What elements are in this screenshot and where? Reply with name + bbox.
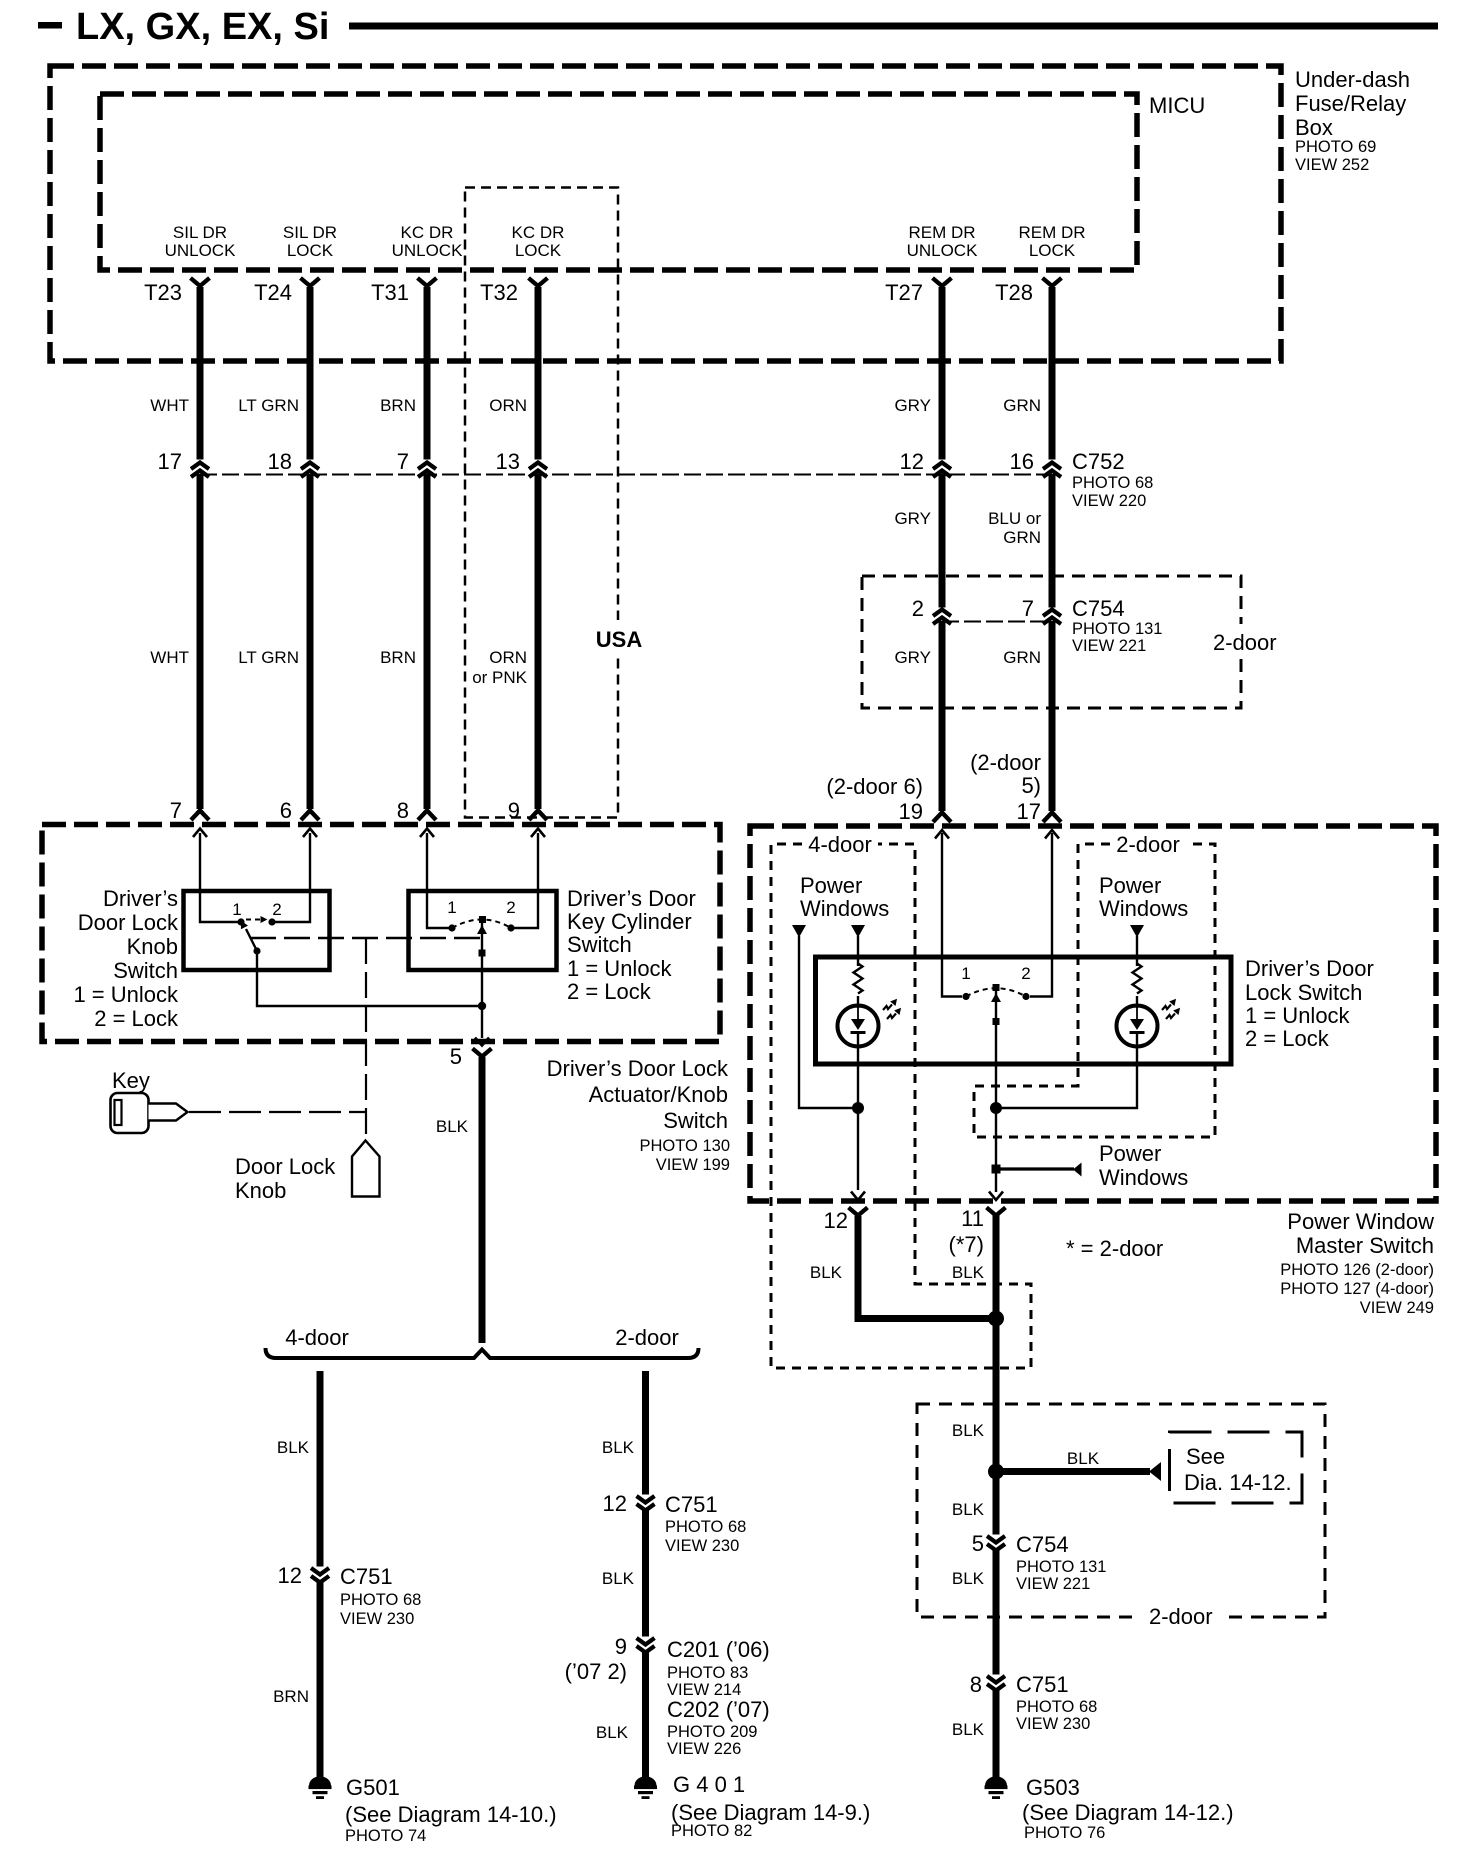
branch wire to See Dia	[996, 1468, 1150, 1475]
svg-text:LOCK: LOCK	[515, 241, 562, 260]
svg-text:ORN: ORN	[489, 648, 527, 667]
svg-text:5: 5	[972, 1531, 984, 1556]
svg-text:2 = Lock: 2 = Lock	[94, 1006, 179, 1031]
wire flare end wire3	[418, 811, 436, 821]
C752 chevrons wire6	[1043, 463, 1061, 470]
svg-text:5): 5)	[1021, 773, 1041, 798]
wire flare end wire6	[1043, 813, 1061, 823]
C752 chevrons wire2	[301, 463, 319, 470]
svg-text:Actuator/Knob: Actuator/Knob	[589, 1082, 728, 1107]
svg-text:PHOTO 130: PHOTO 130	[640, 1137, 730, 1155]
lock switch solid box	[816, 957, 1232, 1064]
wire BLK mid	[642, 1509, 649, 1637]
svg-text:16: 16	[1010, 449, 1034, 474]
svg-text:4-door: 4-door	[808, 832, 872, 857]
FUSEBOX	[50, 66, 1410, 361]
svg-text:PHOTO 68: PHOTO 68	[665, 1518, 746, 1536]
left lamp LED	[838, 1006, 879, 1047]
2-door dashed box bottom	[917, 1404, 1325, 1617]
svg-text:Windows: Windows	[1099, 1165, 1188, 1190]
wire T32 mid	[535, 474, 542, 809]
arrow up wire17	[1045, 830, 1059, 839]
svg-text:PHOTO 68: PHOTO 68	[1072, 474, 1153, 492]
svg-text:BLK: BLK	[1067, 1449, 1100, 1468]
svg-text:Switch: Switch	[567, 932, 632, 957]
svg-text:T32: T32	[480, 280, 518, 305]
svg-text:C752: C752	[1072, 449, 1125, 474]
ground G401	[634, 1776, 657, 1799]
key switch dashed arc	[452, 920, 511, 929]
branch triangle	[1149, 1462, 1161, 1481]
svg-text:BLK: BLK	[952, 1500, 985, 1519]
svg-text:PHOTO 126 (2-door): PHOTO 126 (2-door)	[1280, 1261, 1434, 1279]
svg-text:Driver’s Door Lock: Driver’s Door Lock	[547, 1056, 729, 1081]
lock common square 2	[993, 1018, 1000, 1025]
svg-text:7: 7	[170, 798, 182, 823]
MASTER	[750, 826, 1436, 1535]
svg-text:(’07 2): (’07 2)	[565, 1659, 627, 1684]
lock common wire	[995, 991, 997, 1192]
actuator knob switch dashed box	[42, 825, 720, 1042]
lock common arrow up	[991, 993, 1001, 1002]
key common square 2	[479, 950, 486, 957]
connector C201 chevrons down	[637, 1638, 655, 1645]
svg-text:(2-door 6): (2-door 6)	[826, 774, 923, 799]
svg-text:Key: Key	[112, 1068, 150, 1093]
svg-text:G503: G503	[1026, 1775, 1080, 1800]
svg-text:C754: C754	[1016, 1532, 1069, 1557]
feed arrow left lamp	[851, 925, 865, 938]
wire flare end wire1	[191, 811, 209, 821]
wire flare end wire2	[301, 811, 319, 821]
svg-text:KC DR: KC DR	[512, 223, 565, 242]
wire pin8 to key contact1	[427, 833, 449, 928]
svg-text:Windows: Windows	[1099, 896, 1188, 921]
feed arrow left bypass	[792, 925, 806, 938]
svg-text:PHOTO 82: PHOTO 82	[671, 1822, 752, 1840]
TITLE	[38, 6, 1438, 48]
wire T24 upper	[307, 287, 314, 460]
junction dot see-branch	[988, 1464, 1004, 1480]
svg-text:9: 9	[508, 798, 520, 823]
svg-text:SIL DR: SIL DR	[283, 223, 337, 242]
svg-text:LT GRN: LT GRN	[238, 648, 299, 667]
svg-text:ORN: ORN	[489, 396, 527, 415]
connector C751 chevrons down	[987, 1676, 1005, 1683]
svg-text:PHOTO 76: PHOTO 76	[1024, 1824, 1105, 1842]
key common wire	[481, 923, 483, 1038]
svg-text:PHOTO 131: PHOTO 131	[1072, 620, 1162, 638]
svg-text:LX, GX, EX, Si: LX, GX, EX, Si	[76, 6, 329, 48]
power windows tap line	[996, 1167, 1074, 1170]
left lamp wire mid	[857, 996, 859, 1008]
svg-text:BLK: BLK	[952, 1263, 985, 1282]
connector C751 chevrons down	[637, 1496, 655, 1503]
svg-text:BRN: BRN	[380, 396, 416, 415]
title rule line	[349, 23, 1438, 30]
junction dot left	[852, 1102, 864, 1114]
svg-text:C754: C754	[1072, 596, 1125, 621]
terminal Y T24	[301, 278, 320, 286]
wire T28 lower	[1049, 621, 1056, 811]
svg-text:Fuse/Relay: Fuse/Relay	[1295, 91, 1406, 116]
wire T27 c752-c754	[939, 474, 946, 608]
knob common dot	[253, 947, 260, 954]
svg-text:1 = Unlock: 1 = Unlock	[1245, 1003, 1351, 1028]
left lamp wire upper	[857, 936, 859, 966]
key head	[111, 1093, 149, 1133]
svg-text:VIEW 230: VIEW 230	[340, 1610, 414, 1628]
svg-text:BLK: BLK	[952, 1720, 985, 1739]
left resistor	[854, 964, 863, 994]
connector C751 chevrons down	[311, 1568, 329, 1575]
wire T31 mid	[424, 474, 431, 809]
svg-text:2-door: 2-door	[615, 1325, 679, 1350]
svg-text:Switch: Switch	[113, 958, 178, 983]
wire BLK 11	[993, 1213, 1000, 1535]
wire T27 lower	[939, 621, 946, 811]
svg-text:GRN: GRN	[1003, 648, 1041, 667]
C754 2-door dashed box	[862, 576, 1241, 708]
wire T23 upper	[197, 287, 204, 460]
CHAINR	[917, 1404, 1325, 1842]
wire BLK mid2	[993, 1549, 1000, 1675]
svg-text:1: 1	[232, 900, 241, 919]
svg-text:T31: T31	[371, 280, 409, 305]
junction dot thick	[988, 1311, 1004, 1327]
power windows tap triangle	[1073, 1163, 1082, 1177]
svg-text:LOCK: LOCK	[1029, 241, 1076, 260]
svg-text:C751: C751	[665, 1492, 718, 1517]
knob common wire	[257, 951, 482, 1006]
svg-text:Driver’s: Driver’s	[103, 886, 178, 911]
svg-text:1 = Unlock: 1 = Unlock	[73, 982, 179, 1007]
C752 chevrons wire1	[191, 463, 209, 470]
svg-text:Lock Switch: Lock Switch	[1245, 980, 1362, 1005]
svg-text:See: See	[1186, 1444, 1225, 1469]
svg-text:Power: Power	[1099, 1141, 1161, 1166]
svg-text:19: 19	[899, 799, 923, 824]
svg-text:VIEW 249: VIEW 249	[1360, 1299, 1434, 1317]
arrow up pin7	[193, 829, 207, 838]
svg-text:GRY: GRY	[894, 509, 931, 528]
svg-text:C751: C751	[1016, 1672, 1069, 1697]
svg-text:5: 5	[450, 1044, 462, 1069]
wire BLK lower	[993, 1691, 1000, 1779]
svg-text:BLK: BLK	[810, 1263, 843, 1282]
knob switch box	[184, 891, 330, 970]
svg-text:Door Lock: Door Lock	[235, 1154, 336, 1179]
svg-text:8: 8	[397, 798, 409, 823]
junction dot middle	[990, 1102, 1002, 1114]
svg-text:2: 2	[912, 596, 924, 621]
knob switch dashed throw	[246, 919, 261, 921]
CHAINM	[565, 1371, 871, 1840]
svg-text:VIEW 230: VIEW 230	[665, 1537, 739, 1555]
exit arrow down 11	[989, 1192, 1003, 1201]
svg-text:12: 12	[278, 1563, 302, 1588]
svg-text:VIEW 252: VIEW 252	[1295, 156, 1369, 174]
svg-text:PHOTO 131: PHOTO 131	[1016, 1558, 1106, 1576]
wire pin6 to knob contact2	[275, 833, 310, 922]
svg-text:T24: T24	[254, 280, 292, 305]
right lamp wire upper	[1136, 936, 1138, 966]
wire BRN lower	[317, 1581, 324, 1779]
lock contact 1	[962, 993, 969, 1000]
C752 chevrons wire5	[933, 463, 951, 470]
wire BLK lower	[642, 1651, 649, 1779]
svg-text:KC DR: KC DR	[401, 223, 454, 242]
svg-text:PHOTO 69: PHOTO 69	[1295, 138, 1376, 156]
svg-text:6: 6	[280, 798, 292, 823]
wire T23 mid	[197, 474, 204, 809]
svg-text:LOCK: LOCK	[287, 241, 334, 260]
connector C752 dashed line	[200, 474, 1052, 476]
ground G503	[985, 1776, 1008, 1799]
terminal Y pin11	[987, 1208, 1006, 1216]
split bracket	[266, 1348, 699, 1358]
left lamp emission	[883, 1005, 892, 1011]
terminal Y T23	[191, 278, 210, 286]
svg-text:REM DR: REM DR	[1018, 223, 1085, 242]
svg-text:Driver’s Door: Driver’s Door	[1245, 956, 1374, 981]
lock switch dashed arc	[966, 988, 1026, 996]
junction dot	[478, 1002, 486, 1010]
svg-text:8: 8	[970, 1672, 982, 1697]
wire pin9 to key contact2	[514, 833, 538, 928]
CHAINL	[273, 1371, 556, 1845]
svg-text:11: 11	[961, 1206, 984, 1231]
svg-text:USA: USA	[596, 627, 643, 652]
SPLIT	[266, 1325, 699, 1358]
lock common square	[993, 984, 1000, 991]
title dash	[38, 22, 62, 29]
svg-text:BLK: BLK	[602, 1438, 635, 1457]
svg-text:LT GRN: LT GRN	[238, 396, 299, 415]
svg-text:BLK: BLK	[596, 1723, 629, 1742]
svg-text:17: 17	[158, 449, 182, 474]
svg-text:G 4 0 1: G 4 0 1	[673, 1772, 745, 1797]
svg-text:BLU or: BLU or	[988, 509, 1041, 528]
svg-text:Master Switch: Master Switch	[1296, 1233, 1434, 1258]
key head slot	[115, 1100, 122, 1125]
svg-text:(2-door: (2-door	[970, 750, 1041, 775]
terminal Y T28	[1043, 278, 1062, 286]
terminal Y pin12	[849, 1208, 868, 1216]
svg-text:BLK: BLK	[602, 1569, 635, 1588]
svg-text:PHOTO 127 (4-door): PHOTO 127 (4-door)	[1280, 1280, 1434, 1298]
wire BLK actuator down	[479, 1057, 486, 1343]
arrow up wire19	[935, 830, 949, 839]
svg-text:1: 1	[961, 964, 970, 983]
key blade	[149, 1104, 188, 1121]
svg-text:PHOTO 83: PHOTO 83	[667, 1664, 748, 1682]
svg-text:PHOTO 68: PHOTO 68	[340, 1591, 421, 1609]
svg-text:12: 12	[603, 1491, 627, 1516]
svg-text:2-door: 2-door	[1116, 832, 1180, 857]
svg-text:Driver’s Door: Driver’s Door	[567, 886, 696, 911]
svg-text:VIEW 220: VIEW 220	[1072, 492, 1146, 510]
wire T32 upper	[535, 287, 542, 460]
terminal Y T31	[418, 278, 437, 286]
See Dia box	[1170, 1432, 1303, 1503]
svg-text:2 = Lock: 2 = Lock	[567, 979, 652, 1004]
svg-text:BRN: BRN	[380, 648, 416, 667]
svg-text:2 = Lock: 2 = Lock	[1245, 1026, 1330, 1051]
right lamp emission	[1162, 1005, 1171, 1011]
svg-text:(*7): (*7)	[949, 1232, 984, 1257]
svg-text:7: 7	[397, 449, 409, 474]
wire T28 c752-c754	[1049, 474, 1056, 608]
under-dash fuse/relay box	[50, 66, 1281, 361]
svg-text:Power: Power	[800, 873, 862, 898]
key contact 1	[448, 924, 455, 931]
svg-text:4-door: 4-door	[285, 1325, 349, 1350]
svg-text:VIEW 221: VIEW 221	[1072, 637, 1146, 655]
svg-text:WHT: WHT	[150, 396, 189, 415]
svg-text:12: 12	[900, 449, 924, 474]
svg-text:C202 (’07): C202 (’07)	[667, 1697, 770, 1722]
C752 chevrons wire4	[529, 463, 547, 470]
svg-text:BLK: BLK	[952, 1569, 985, 1588]
key contact 2	[507, 924, 514, 931]
key cylinder switch box	[409, 891, 557, 970]
svg-text:(See Diagram 14-10.): (See Diagram 14-10.)	[345, 1802, 557, 1827]
svg-text:UNLOCK: UNLOCK	[392, 241, 464, 260]
svg-text:Box: Box	[1295, 115, 1333, 140]
svg-text:GRY: GRY	[894, 396, 931, 415]
svg-text:PHOTO 74: PHOTO 74	[345, 1827, 426, 1845]
arrow up pin6	[303, 829, 317, 838]
svg-text:C751: C751	[340, 1564, 393, 1589]
switch wire 17	[1030, 833, 1052, 997]
4-door dashed region	[771, 844, 1031, 1368]
svg-text:7: 7	[1022, 596, 1034, 621]
svg-text:9: 9	[615, 1634, 627, 1659]
svg-text:REM DR: REM DR	[908, 223, 975, 242]
svg-text:BLK: BLK	[952, 1421, 985, 1440]
MICUWIRES	[150, 278, 1061, 460]
feed arrow right lamp	[1130, 925, 1144, 938]
svg-text:Knob: Knob	[127, 934, 178, 959]
svg-text:PHOTO 209: PHOTO 209	[667, 1723, 757, 1741]
exit arrow down 12	[851, 1192, 865, 1201]
svg-text:T23: T23	[144, 280, 182, 305]
right lamp LED	[1117, 1006, 1158, 1047]
svg-text:BRN: BRN	[273, 1687, 309, 1706]
exit arrow down	[475, 1038, 489, 1046]
power windows tap square	[992, 1165, 1001, 1174]
svg-text:Dia. 14-12.: Dia. 14-12.	[1184, 1470, 1292, 1495]
svg-text:Key Cylinder: Key Cylinder	[567, 909, 692, 934]
power window master switch dashed box	[750, 826, 1436, 1201]
wire flare end wire5	[933, 813, 951, 823]
wire flare end wire4	[529, 811, 547, 821]
svg-text:T27: T27	[885, 280, 923, 305]
right lamp wire mid	[1136, 996, 1138, 1008]
svg-text:Knob: Knob	[235, 1178, 286, 1203]
wire pin7 to knob contact1	[200, 833, 238, 922]
svg-text:Switch: Switch	[663, 1108, 728, 1133]
wire T28 upper	[1049, 287, 1056, 460]
svg-text:Power Window: Power Window	[1287, 1209, 1434, 1234]
svg-text:2-door: 2-door	[1149, 1604, 1213, 1629]
right resistor	[1133, 964, 1142, 994]
svg-text:(See Diagram 14-12.): (See Diagram 14-12.)	[1022, 1800, 1234, 1825]
mechanical dashed vertical	[365, 938, 367, 1140]
left lamp wire lower	[857, 1034, 859, 1190]
svg-text:Windows: Windows	[800, 896, 889, 921]
2-door label background	[1140, 1602, 1226, 1632]
wire BLK 4-door upper	[317, 1371, 324, 1567]
svg-text:2: 2	[1021, 964, 1030, 983]
right lamp wire lower	[996, 1034, 1137, 1108]
svg-text:T28: T28	[995, 280, 1033, 305]
wire BLK 2-door upper	[642, 1371, 649, 1495]
C754ROW	[826, 474, 1291, 824]
terminal Y pin5	[473, 1049, 492, 1057]
2-door label background	[1205, 624, 1291, 656]
wire T24 mid	[307, 474, 314, 809]
knob contact 1	[237, 918, 244, 925]
connector C754 dashed line	[942, 621, 1052, 623]
svg-text:Power: Power	[1099, 873, 1161, 898]
svg-text:2: 2	[272, 900, 281, 919]
wire T27 upper	[939, 287, 946, 460]
wire BLK 12	[858, 1216, 992, 1319]
svg-text:1: 1	[447, 898, 456, 917]
svg-text:1 = Unlock: 1 = Unlock	[567, 956, 673, 981]
svg-text:UNLOCK: UNLOCK	[165, 241, 237, 260]
svg-text:Door Lock: Door Lock	[78, 910, 179, 935]
svg-text:G501: G501	[346, 1775, 400, 1800]
knob contact 2	[268, 918, 275, 925]
door lock knob symbol	[352, 1141, 380, 1197]
terminal Y T32	[529, 278, 548, 286]
svg-text:WHT: WHT	[150, 648, 189, 667]
svg-text:GRY: GRY	[894, 648, 931, 667]
USA label background	[588, 620, 650, 654]
KEYKNOB	[111, 1068, 380, 1203]
svg-text:BLK: BLK	[436, 1117, 469, 1136]
ground G501	[309, 1776, 332, 1799]
svg-text:UNLOCK: UNLOCK	[907, 241, 979, 260]
svg-text:C201 (’06): C201 (’06)	[667, 1637, 770, 1662]
mechanical dashed link	[250, 937, 480, 940]
svg-text:GRN: GRN	[1003, 396, 1041, 415]
svg-text:VIEW 199: VIEW 199	[656, 1156, 730, 1174]
svg-text:PHOTO 68: PHOTO 68	[1016, 1698, 1097, 1716]
svg-text:18: 18	[268, 449, 292, 474]
svg-text:13: 13	[496, 449, 520, 474]
arrow up pin8	[420, 829, 434, 838]
svg-text:12: 12	[824, 1208, 848, 1233]
2-door dashed region	[974, 844, 1215, 1137]
C752 chevrons wire3	[418, 463, 436, 470]
svg-text:Under-dash: Under-dash	[1295, 67, 1410, 92]
svg-text:MICU: MICU	[1149, 93, 1205, 118]
svg-text:GRN: GRN	[1003, 528, 1041, 547]
terminal Y T27	[933, 278, 952, 286]
svg-text:SIL DR: SIL DR	[173, 223, 227, 242]
svg-text:2-door: 2-door	[1213, 630, 1277, 655]
USA dotted box	[465, 188, 618, 818]
bypass wire	[799, 936, 858, 1108]
C752ROW	[150, 449, 1153, 823]
ACTUATOR	[42, 825, 730, 1344]
svg-text:or PNK: or PNK	[472, 668, 527, 687]
USABOX	[465, 188, 650, 818]
